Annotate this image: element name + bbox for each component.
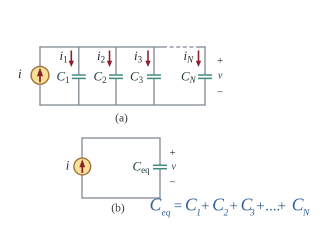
- svg-text:v: v: [218, 71, 223, 82]
- wire branch 2 upper (a): [115, 47, 117, 74]
- current source i (a): [31, 66, 49, 84]
- svg-text:+: +: [217, 55, 223, 67]
- current source i (b): [74, 158, 91, 175]
- svg-text:CN: CN: [181, 69, 197, 86]
- current arrow iN: [196, 51, 201, 68]
- svg-text:(b): (b): [111, 202, 125, 214]
- svg-text:eq: eq: [162, 208, 171, 218]
- capacitor C1: [72, 75, 86, 78]
- svg-text:=: =: [174, 199, 182, 215]
- wire top bus (a) dashed continuation: [163, 46, 196, 48]
- capacitor C2: [109, 75, 123, 78]
- svg-text:C2: C2: [94, 69, 107, 86]
- svg-text:+: +: [278, 199, 286, 215]
- svg-text:+: +: [230, 199, 238, 215]
- svg-text:C3: C3: [130, 69, 144, 86]
- svg-text:C: C: [150, 195, 162, 215]
- svg-text:(a): (a): [115, 112, 128, 124]
- wire right edge lower (a): [204, 79, 206, 106]
- wire branch 1 lower (a): [78, 79, 80, 105]
- svg-text:N: N: [302, 208, 310, 218]
- wire branch 1 upper (a): [78, 47, 80, 74]
- wire bottom bus (a): [39, 104, 205, 106]
- svg-text:+: +: [201, 199, 209, 215]
- svg-text:−: −: [170, 177, 176, 189]
- capacitor C3: [147, 75, 161, 78]
- current arrow i1: [69, 51, 74, 68]
- svg-text:C: C: [185, 195, 197, 215]
- svg-text:i2: i2: [97, 48, 105, 65]
- svg-text:C: C: [212, 195, 224, 215]
- svg-text:Ceq: Ceq: [133, 159, 151, 176]
- wire top bus (a) solid left section: [39, 46, 163, 48]
- wire top bus (b): [81, 137, 160, 139]
- svg-text:i3: i3: [134, 48, 143, 65]
- wire branch 2 lower (a): [115, 79, 117, 105]
- wire bottom bus (b): [81, 197, 160, 199]
- capacitor CN: [198, 75, 212, 78]
- wire top bus (a) solid right section: [196, 46, 206, 48]
- wire right edge lower (b): [159, 169, 161, 198]
- svg-text:iN: iN: [184, 48, 195, 65]
- wire branch 3 upper (a): [153, 47, 155, 74]
- svg-text:C1: C1: [57, 69, 70, 86]
- wire branch 3 lower (a): [153, 79, 155, 105]
- capacitor Ceq: [153, 165, 167, 168]
- svg-text:i: i: [66, 157, 70, 172]
- svg-text:+: +: [256, 199, 264, 215]
- wire right edge upper (a): [204, 46, 206, 74]
- svg-text:i1: i1: [60, 48, 68, 65]
- svg-text:−: −: [217, 87, 223, 99]
- svg-text:v: v: [172, 162, 177, 173]
- current arrow i3: [145, 51, 150, 68]
- wire right edge upper (b): [159, 137, 161, 164]
- wire left edge (b): [81, 137, 83, 198]
- svg-text:3: 3: [249, 208, 255, 218]
- svg-text:2: 2: [224, 208, 229, 218]
- wire left edge (a): [39, 46, 41, 105]
- equation Ceq = C1 + C2 + C3 + .... + CN: [150, 195, 310, 219]
- svg-text:C: C: [292, 195, 304, 215]
- current arrow i2: [107, 51, 112, 68]
- svg-text:i: i: [18, 66, 22, 81]
- svg-text:+: +: [170, 147, 176, 159]
